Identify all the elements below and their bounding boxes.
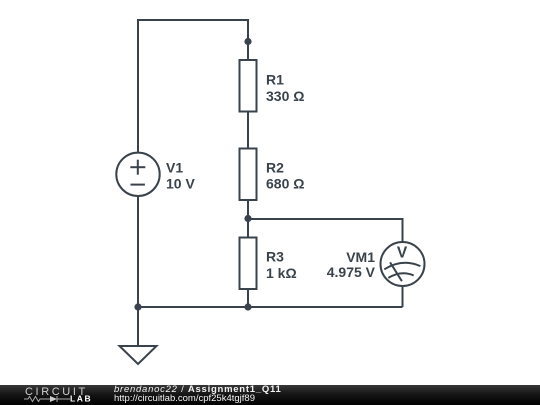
resistor R1 [240,60,257,112]
svg-text:1 kΩ: 1 kΩ [266,265,297,281]
svg-text:R3: R3 [266,249,284,265]
footer bar [0,385,540,405]
node B (R2-R3 / meter branch) [244,215,251,222]
svg-text:10 V: 10 V [166,176,195,192]
node A (top) [244,38,251,45]
wire left lower (V1 bottom to bottom rail) [137,196,139,307]
voltmeter VM1 [381,242,425,286]
wire R1-R2 [247,112,249,149]
footer credit text [114,385,282,404]
junction node dots [134,38,251,311]
wire voltmeter bottom [402,286,404,307]
svg-text:LAB: LAB [70,394,92,404]
CircuitLab logo [24,385,94,405]
voltage source V1 [116,153,159,196]
resistor R2 [240,149,257,201]
wire R2-R3 [247,200,249,238]
svg-text:V1: V1 [166,160,183,176]
labels [166,72,408,282]
svg-text:V: V [397,245,408,262]
svg-text:R2: R2 [266,160,284,176]
svg-text:330 Ω: 330 Ω [266,88,304,104]
wire bottom rail [138,306,403,308]
svg-text:VM1: VM1 [346,249,375,265]
wire R3-bottom rail [247,289,249,307]
svg-text:4.975 V: 4.975 V [327,264,376,280]
wire branch to voltmeter [248,219,403,242]
svg-text:680 Ω: 680 Ω [266,176,304,192]
wire top (V1 top node to resistor chain) [138,20,248,153]
node gnd-mid [244,303,251,310]
node gnd-left [134,303,141,310]
ground [120,307,157,364]
svg-text:R1: R1 [266,72,284,88]
resistor R3 [240,238,257,290]
